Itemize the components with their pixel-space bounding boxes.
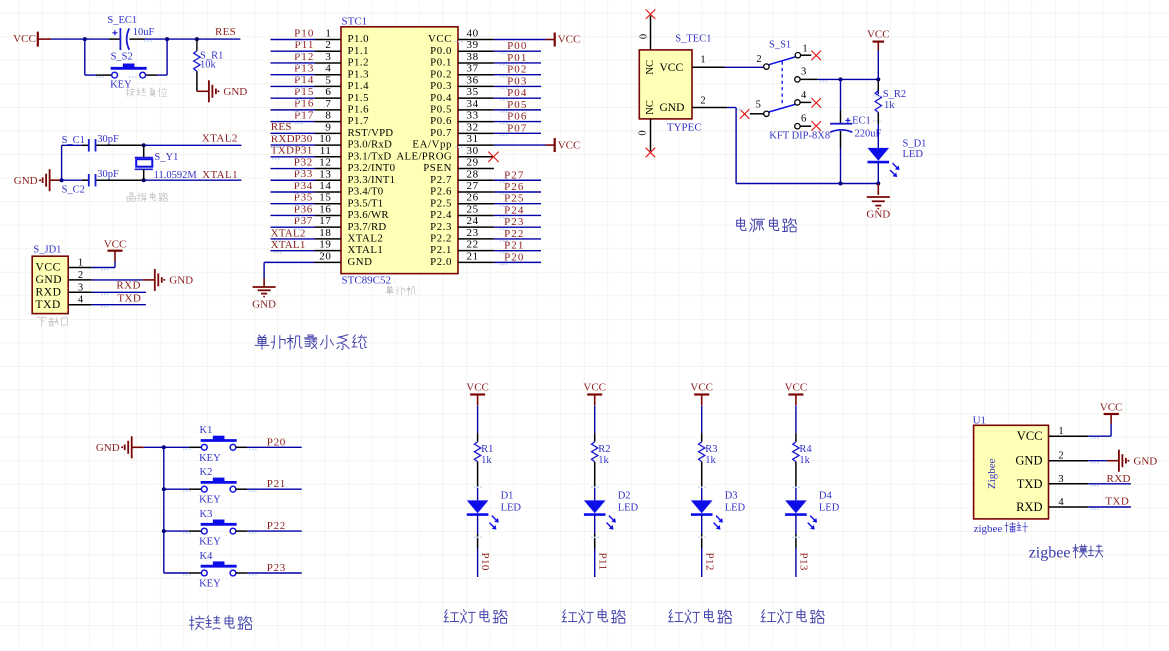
svg-text:Zigbee: Zigbee [986,458,998,489]
svg-text:R3: R3 [705,444,717,455]
svg-text:7: 7 [325,98,331,110]
svg-text:XTAL2: XTAL2 [271,227,306,239]
svg-text:1k: 1k [884,100,895,111]
svg-text:P13: P13 [294,62,314,74]
svg-text:TXD: TXD [1105,496,1129,508]
svg-text:P0.2: P0.2 [430,68,452,80]
svg-text:P2.0: P2.0 [430,256,452,268]
svg-text:RST/VPD: RST/VPD [348,127,394,139]
svg-text:P36: P36 [294,203,313,215]
svg-text:D3: D3 [725,491,738,502]
svg-text:D4: D4 [819,491,833,502]
svg-text:P0.0: P0.0 [430,45,452,57]
svg-text:0: 0 [638,130,649,135]
svg-text:STC89C52: STC89C52 [342,275,392,287]
svg-text:37: 37 [467,63,479,75]
svg-text:P22: P22 [267,520,286,532]
svg-text:1k: 1k [598,455,609,466]
svg-text:RXD: RXD [271,133,295,145]
svg-text:31: 31 [467,133,479,145]
svg-text:1: 1 [802,43,807,54]
svg-text:P20: P20 [267,436,286,448]
svg-text:19: 19 [319,239,331,251]
svg-text:GND: GND [660,102,685,114]
svg-text:LED: LED [903,149,924,160]
svg-text:4: 4 [325,63,331,75]
svg-text:220uF: 220uF [855,128,882,139]
svg-text:P12: P12 [294,51,314,63]
svg-text:S_D1: S_D1 [903,138,927,149]
svg-text:9: 9 [325,121,331,133]
svg-text:XTAL2: XTAL2 [202,133,238,145]
svg-text:GND: GND [169,275,193,287]
svg-text:GND: GND [96,442,120,454]
svg-text:P3.0/RxD: P3.0/RxD [348,139,393,151]
svg-text:P1.1: P1.1 [348,45,370,57]
svg-text:10: 10 [319,133,331,145]
svg-text:P2.6: P2.6 [430,186,452,198]
svg-text:K3: K3 [200,509,213,520]
svg-text:21: 21 [467,250,479,262]
svg-text:VCC: VCC [1100,402,1123,414]
svg-text:R2: R2 [598,444,610,455]
svg-text:EC1: EC1 [852,116,871,127]
svg-text:VCC: VCC [104,238,127,250]
svg-text:P11: P11 [596,553,608,571]
svg-text:RXD: RXD [1016,500,1042,514]
svg-text:P34: P34 [294,180,313,192]
svg-text:TYPEC: TYPEC [667,122,702,134]
svg-text:1k: 1k [481,455,492,466]
svg-text:P2.7: P2.7 [430,174,452,186]
svg-text:VCC: VCC [13,33,36,45]
svg-text:VCC: VCC [583,382,606,394]
svg-text:R1: R1 [481,444,493,455]
svg-text:10k: 10k [200,59,217,70]
svg-text:VCC: VCC [558,139,581,151]
svg-text:EA/Vpp: EA/Vpp [412,139,452,151]
svg-text:GND: GND [223,86,247,98]
svg-text:VCC: VCC [690,382,713,394]
svg-text:32: 32 [467,121,479,133]
svg-text:20: 20 [319,250,331,262]
svg-text:30pF: 30pF [97,134,119,145]
svg-text:KEY: KEY [199,495,221,506]
svg-text:P15: P15 [294,86,314,98]
svg-text:VCC: VCC [867,29,890,41]
svg-text:P2.4: P2.4 [430,209,452,221]
svg-text:GND: GND [14,175,38,187]
svg-text:GND: GND [252,299,276,311]
svg-text:VCC: VCC [785,382,808,394]
svg-text:KFT DIP-8X8: KFT DIP-8X8 [769,130,830,141]
svg-text:10uF: 10uF [133,27,155,38]
svg-text:P32: P32 [294,156,313,168]
svg-text:5: 5 [756,99,761,110]
svg-text:P02: P02 [507,64,527,76]
svg-text:P12: P12 [703,553,715,571]
svg-text:VCC: VCC [558,34,581,46]
svg-text:15: 15 [319,192,331,204]
svg-text:18: 18 [319,227,331,239]
svg-text:TXD: TXD [36,299,61,311]
svg-text:P37: P37 [294,215,313,227]
svg-text:P1.6: P1.6 [348,103,370,115]
svg-text:24: 24 [467,215,479,227]
svg-text:P35: P35 [294,192,313,204]
svg-text:P0.7: P0.7 [430,127,452,139]
svg-text:VCC: VCC [1017,429,1043,443]
svg-text:D2: D2 [618,491,631,502]
svg-text:P1.5: P1.5 [348,92,370,104]
svg-text:RXD: RXD [1106,473,1130,485]
svg-text:13: 13 [319,168,331,180]
svg-text:XTAL1: XTAL1 [348,244,384,256]
svg-text:P0.1: P0.1 [430,57,452,69]
svg-text:6: 6 [801,113,806,124]
svg-text:11: 11 [320,145,332,157]
svg-text:P00: P00 [507,40,527,52]
svg-text:LED: LED [725,503,746,514]
svg-text:16: 16 [319,203,331,215]
svg-text:STC1: STC1 [342,16,368,28]
svg-text:1k: 1k [705,455,716,466]
svg-text:P21: P21 [267,478,286,490]
svg-text:S_C1: S_C1 [62,135,85,146]
svg-text:K1: K1 [200,425,213,436]
svg-text:11.0592M: 11.0592M [154,170,198,181]
svg-text:KEY: KEY [199,537,221,548]
svg-text:KEY: KEY [199,453,221,464]
svg-text:2: 2 [325,39,331,51]
svg-text:P14: P14 [294,74,314,86]
svg-text:P3.1/TxD: P3.1/TxD [348,150,392,162]
svg-text:P16: P16 [294,98,314,110]
svg-text:S_JD1: S_JD1 [33,245,61,256]
svg-text:P33: P33 [294,168,313,180]
svg-text:P27: P27 [504,169,524,181]
svg-text:P3.2/INT0: P3.2/INT0 [348,162,396,174]
svg-text:S_S2: S_S2 [111,51,133,62]
svg-text:GND: GND [36,274,63,286]
svg-text:P3.4/T0: P3.4/T0 [348,186,384,198]
svg-text:P2.5: P2.5 [430,197,452,209]
svg-text:LED: LED [819,503,840,514]
svg-text:ALE/PROG: ALE/PROG [396,150,452,162]
svg-text:P3.5/T1: P3.5/T1 [348,197,384,209]
svg-text:PSEN: PSEN [423,162,452,174]
svg-text:P05: P05 [507,99,527,111]
svg-text:S_C2: S_C2 [62,184,85,195]
svg-text:8: 8 [325,110,331,122]
svg-text:RES: RES [271,121,292,133]
svg-text:NC: NC [645,60,656,75]
svg-text:K2: K2 [200,467,213,478]
svg-text:TXD: TXD [1017,477,1043,491]
svg-text:P1.7: P1.7 [348,115,370,127]
svg-text:40: 40 [467,28,479,40]
svg-text:4: 4 [801,90,807,101]
svg-text:30: 30 [467,145,479,157]
svg-text:P03: P03 [507,75,527,87]
svg-text:LED: LED [501,503,522,514]
svg-text:P06: P06 [507,111,527,123]
svg-text:P10: P10 [294,27,314,39]
svg-text:XTAL1: XTAL1 [202,169,238,181]
svg-text:P1.0: P1.0 [348,33,370,45]
svg-text:26: 26 [467,192,479,204]
svg-text:6: 6 [325,86,331,98]
svg-text:NC: NC [645,100,656,115]
svg-text:12: 12 [319,157,331,169]
svg-text:VCC: VCC [36,262,61,274]
svg-text:P2.2: P2.2 [430,233,452,245]
svg-text:GND: GND [1015,454,1042,468]
svg-text:S_EC1: S_EC1 [107,15,137,26]
svg-text:P1.2: P1.2 [348,57,370,69]
svg-text:P1.3: P1.3 [348,68,370,80]
svg-text:P13: P13 [798,553,810,571]
svg-text:3: 3 [801,67,806,78]
svg-text:P2.3: P2.3 [430,221,452,233]
svg-text:P30: P30 [295,133,313,145]
svg-text:P0.4: P0.4 [430,92,452,104]
svg-text:27: 27 [467,180,479,192]
svg-text:25: 25 [467,203,479,215]
svg-text:R4: R4 [799,444,812,455]
svg-text:34: 34 [467,98,479,110]
svg-text:14: 14 [319,180,331,192]
svg-text:1: 1 [700,54,705,65]
svg-text:2: 2 [756,54,761,65]
svg-text:P04: P04 [507,87,527,99]
svg-text:30pF: 30pF [97,169,119,180]
svg-text:S_TEC1: S_TEC1 [675,34,711,45]
svg-text:P0.5: P0.5 [430,103,452,115]
svg-text:K4: K4 [200,551,214,562]
svg-text:TXD: TXD [271,145,295,157]
svg-text:P07: P07 [507,122,527,134]
svg-text:38: 38 [467,51,479,63]
svg-text:P01: P01 [507,52,527,64]
svg-text:1: 1 [325,28,331,40]
svg-text:KEY: KEY [110,79,132,90]
svg-text:GND: GND [348,256,373,268]
svg-text:S_S1: S_S1 [769,40,791,51]
svg-text:29: 29 [467,157,479,169]
svg-text:P31: P31 [295,145,313,157]
svg-text:P0.6: P0.6 [430,115,452,127]
svg-text:28: 28 [467,168,479,180]
svg-text:P1.4: P1.4 [348,80,370,92]
svg-text:3: 3 [325,51,331,63]
svg-text:U1: U1 [973,414,986,426]
svg-text:22: 22 [467,239,479,251]
svg-text:VCC: VCC [428,33,452,45]
svg-text:VCC: VCC [466,382,489,394]
svg-text:KEY: KEY [199,579,221,590]
svg-text:TXD: TXD [117,293,141,305]
svg-text:D1: D1 [501,491,514,502]
svg-text:S_R2: S_R2 [883,89,906,100]
svg-text:5: 5 [325,74,331,86]
svg-text:P11: P11 [294,39,314,51]
svg-text:P3.3/INT1: P3.3/INT1 [348,174,396,186]
svg-text:35: 35 [467,86,479,98]
svg-text:P17: P17 [294,109,314,121]
svg-text:33: 33 [467,110,479,122]
svg-text:P3.6/WR: P3.6/WR [348,209,390,221]
svg-text:39: 39 [467,39,479,51]
svg-text:23: 23 [467,227,479,239]
svg-text:RES: RES [215,26,236,38]
svg-text:2: 2 [700,96,705,107]
svg-text:VCC: VCC [660,62,684,74]
svg-text:GND: GND [866,209,890,221]
svg-text:P10: P10 [479,553,491,571]
svg-text:GND: GND [1133,455,1157,467]
svg-text:RXD: RXD [36,287,62,299]
svg-text:LED: LED [618,503,639,514]
svg-text:zigbee: zigbee [1029,545,1071,562]
svg-text:P0.3: P0.3 [430,80,452,92]
svg-text:P3.7/RD: P3.7/RD [348,221,387,233]
svg-text:XTAL2: XTAL2 [348,233,384,245]
svg-text:17: 17 [319,215,331,227]
svg-text:36: 36 [467,74,479,86]
svg-text:P2.1: P2.1 [430,244,452,256]
svg-text:XTAL1: XTAL1 [271,239,306,251]
svg-text:P23: P23 [267,562,286,574]
svg-text:0: 0 [639,34,650,39]
svg-text:S_Y1: S_Y1 [154,152,178,163]
svg-text:RXD: RXD [116,280,140,292]
svg-text:1k: 1k [799,455,810,466]
svg-text:zigbee: zigbee [974,523,1003,535]
